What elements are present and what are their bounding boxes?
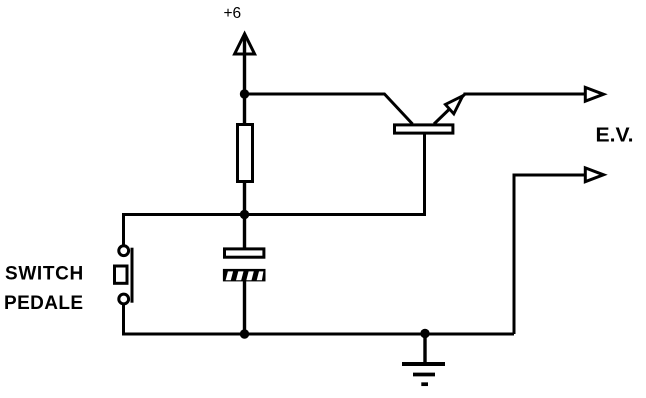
wire: supply to resistor [243,37,246,124]
svg-text:+6: +6 [224,5,242,22]
capacitor C1 bottom plate [223,269,266,282]
ground rail wire [122,333,514,336]
wire: collector horizontal [245,93,386,96]
node: base/divider junction [240,210,249,219]
node: capacitor/ground rail junction [240,329,249,338]
transistor Q1 collector lead [384,94,413,125]
wire: capacitor to ground rail [243,281,246,334]
svg-text:SWITCH: SWITCH [5,264,84,285]
output arrow 2 [585,168,603,182]
output arrow 1 [585,87,603,101]
transistor Q1 emitter arrowhead [445,96,462,114]
wire: node to capacitor [243,215,246,250]
svg-text:PEDALE: PEDALE [4,293,83,314]
wire: base vertical [423,134,426,215]
wire: base horizontal [122,213,426,216]
wire: switch top [122,215,125,246]
svg-text:E.V.: E.V. [596,125,634,147]
transistor Q1 emitter lead [434,94,465,124]
switch SW1 button square [115,266,128,283]
resistor R1 [238,125,253,182]
switch SW1 top contact circle [119,246,129,256]
wire: resistor to base node [243,182,246,215]
+6 power arrow [235,34,255,54]
wire: ground rail to output arrow 2 [514,175,586,334]
switch SW1 bottom contact circle [119,294,129,304]
switch SW1 movable contact bar [131,248,134,303]
wire: emitter to output arrow [464,93,588,96]
transistor Q1 base bar [395,125,453,133]
ground symbol [402,334,445,384]
capacitor C1 top plate [225,249,264,257]
node: supply/collector junction [240,89,249,98]
node: ground junction [420,329,429,338]
wire: switch bottom [122,305,125,336]
